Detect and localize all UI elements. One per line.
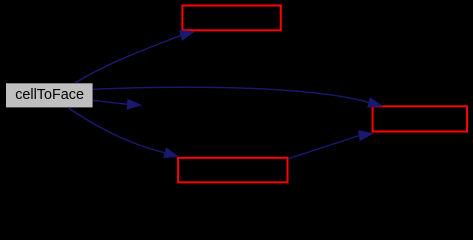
svg-text:cellToFace: cellToFace (15, 87, 84, 103)
edge cellToFace to bottom box (68, 108, 178, 158)
node cellToFace (current node, grey) (6, 83, 93, 107)
edge bottom box to right box (288, 131, 372, 159)
edge cellToFace to hidden middle node (short arrow) (93, 100, 141, 110)
edge cellToFace to top box (75, 31, 194, 83)
node box right (red, label hidden) (373, 106, 467, 131)
node box top (red, label hidden) (182, 6, 280, 31)
node box bottom (red, label hidden) (178, 158, 287, 183)
edge cellToFace to right box (long arc) (93, 87, 383, 107)
